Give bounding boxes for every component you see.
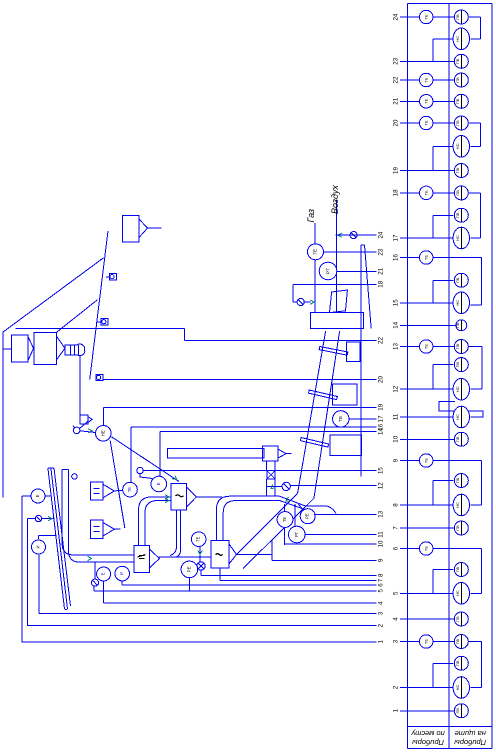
svg-text:8: 8 [392,503,399,507]
svg-text:20: 20 [392,119,399,126]
svg-text:8: 8 [377,573,384,577]
svg-text:РТ: РТ [325,268,331,274]
svg-text:2: 2 [377,623,384,627]
svg-text:10: 10 [392,435,399,442]
svg-text:ПВ: ПВ [456,98,460,104]
svg-text:ПВ: ПВ [456,77,460,83]
svg-text:НС: НС [455,235,460,241]
svg-text:НС: НС [455,143,460,149]
svg-text:TE: TE [424,120,429,125]
svg-text:ТЕ: ТЕ [127,487,132,493]
svg-text:ТЕ: ТЕ [338,416,344,422]
svg-text:3: 3 [392,639,399,643]
svg-text:22: 22 [392,76,399,83]
svg-text:19: 19 [377,403,384,410]
svg-text:Е: Е [156,482,161,485]
svg-text:21: 21 [377,267,384,274]
svg-text:ПВ: ПВ [456,120,460,126]
svg-text:18: 18 [392,189,399,196]
svg-text:ПВ: ПВ [456,58,460,64]
svg-text:РЕ: РЕ [305,513,310,519]
svg-text:18: 18 [377,280,384,287]
svg-text:TE: TE [424,546,429,551]
svg-text:23: 23 [392,57,399,64]
svg-text:TE: TE [424,458,429,463]
svg-text:12: 12 [392,385,399,392]
svg-text:ПВ: ПВ [456,638,460,644]
svg-text:7: 7 [392,526,399,530]
svg-text:7: 7 [377,578,384,582]
svg-text:ПВ: ПВ [456,436,460,442]
svg-text:ПВ: ПВ [456,343,460,349]
svg-text:9: 9 [392,458,399,462]
svg-text:15: 15 [377,467,384,474]
svg-text:ПВ: ПВ [456,477,460,483]
svg-text:6: 6 [392,546,399,550]
svg-text:НЕ: НЕ [101,430,106,436]
svg-text:4: 4 [392,617,399,621]
svg-text:11: 11 [392,413,399,420]
svg-text:ПВ: ПВ [456,322,460,328]
svg-text:TE: TE [424,98,429,103]
svg-text:ПВ: ПВ [456,277,460,283]
svg-text:НС: НС [455,414,460,420]
svg-text:14: 14 [392,321,399,328]
svg-text:19: 19 [392,167,399,174]
svg-text:РЕ: РЕ [186,566,191,572]
svg-text:10: 10 [377,540,384,547]
svg-text:TE: TE [424,77,429,82]
svg-text:ПВ: ПВ [456,525,460,531]
svg-text:Воздух: Воздух [330,185,340,214]
svg-text:17: 17 [377,415,384,422]
svg-text:6: 6 [377,583,384,587]
svg-text:НС: НС [455,685,460,691]
svg-text:НС: НС [455,502,460,508]
svg-text:3: 3 [377,611,384,615]
svg-text:Приборы: Приборы [454,738,486,747]
svg-text:22: 22 [377,337,384,344]
svg-text:24: 24 [377,231,384,238]
svg-text:24: 24 [392,13,399,20]
svg-text:ПВ: ПВ [456,212,460,218]
svg-text:4: 4 [377,601,384,605]
svg-text:ТЕ: ТЕ [282,517,287,523]
svg-text:13: 13 [377,510,384,517]
svg-text:11: 11 [377,531,384,538]
svg-text:2: 2 [392,685,399,689]
svg-text:ПВ: ПВ [456,14,460,20]
svg-text:5: 5 [377,589,384,593]
svg-text:на щите: на щите [455,729,486,738]
svg-text:21: 21 [392,97,399,104]
svg-text:Е: Е [101,572,106,575]
svg-text:ПВ: ПВ [456,190,460,196]
svg-text:12: 12 [377,482,384,489]
svg-text:РГ: РГ [294,531,299,537]
svg-text:ПВ: ПВ [456,708,460,714]
svg-text:ПВ: ПВ [456,362,460,368]
svg-text:TE: TE [424,344,429,349]
svg-text:1: 1 [377,640,384,644]
svg-text:ПВ: ПВ [456,167,460,173]
svg-text:ТЕ: ТЕ [196,536,201,542]
svg-text:Е: Е [35,494,40,497]
svg-text:16: 16 [392,254,399,261]
svg-text:ТЕ: ТЕ [312,249,318,255]
svg-text:5: 5 [392,591,399,595]
svg-text:TE: TE [424,190,429,195]
svg-text:ПВ: ПВ [456,616,460,622]
svg-text:TE: TE [424,639,429,644]
svg-text:1: 1 [392,708,399,712]
svg-text:13: 13 [392,343,399,350]
svg-text:ПВ: ПВ [456,660,460,666]
svg-text:TE: TE [424,255,429,260]
svg-text:НС: НС [455,590,460,596]
svg-text:TE: TE [424,14,429,19]
svg-text:НС: НС [455,386,460,392]
svg-text:14: 14 [377,428,384,435]
svg-text:20: 20 [377,376,384,383]
svg-text:Приборы: Приборы [412,738,444,747]
svg-text:15: 15 [392,299,399,306]
svg-text:Газ: Газ [306,209,316,223]
svg-text:НС: НС [455,36,460,42]
svg-text:по месту: по месту [410,729,444,738]
svg-text:И: И [36,545,41,548]
svg-text:НС: НС [455,300,460,306]
svg-text:9: 9 [377,558,384,562]
svg-text:23: 23 [377,248,384,255]
svg-text:ПВ: ПВ [456,566,460,572]
svg-text:17: 17 [392,234,399,241]
svg-text:И: И [119,572,124,575]
